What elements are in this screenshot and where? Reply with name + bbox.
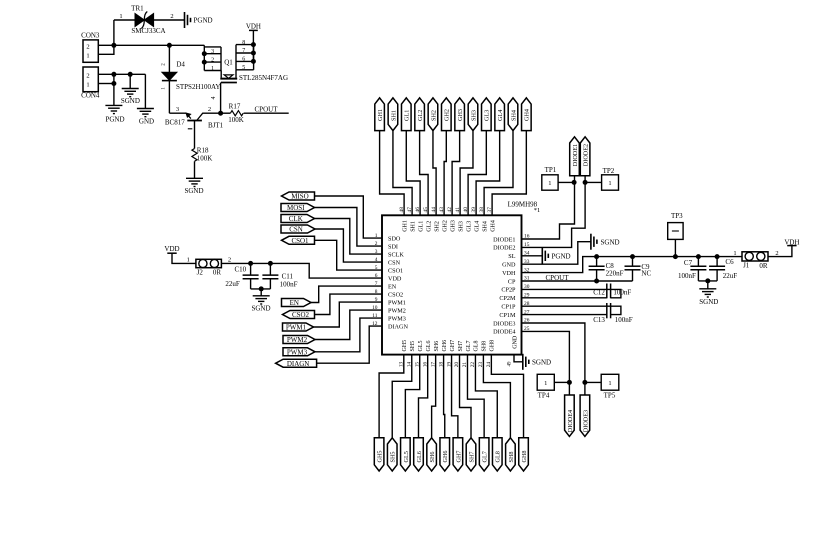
svg-text:GH7: GH7: [455, 450, 462, 462]
svg-text:GL1: GL1: [418, 221, 424, 232]
svg-text:GH2: GH2: [442, 220, 448, 232]
svg-text:GL5: GL5: [418, 341, 424, 352]
svg-text:1: 1: [548, 180, 551, 187]
wire TP4 to DIODE4 net: [554, 381, 569, 383]
svg-text:1: 1: [211, 66, 214, 72]
wire EN to pin7: [311, 286, 382, 302]
net flag PWM1: [283, 323, 314, 331]
wire IC GND pin to SGND: [514, 355, 522, 362]
capacitor C9 NC: [632, 257, 634, 267]
svg-text:CSO1: CSO1: [388, 267, 403, 274]
net flag SH1 (top): [388, 98, 398, 131]
svg-text:STPS2H100AY: STPS2H100AY: [176, 83, 220, 91]
wire Q1 source pin4: [220, 83, 222, 114]
svg-text:GH4: GH4: [490, 220, 496, 232]
svg-text:CSN: CSN: [289, 226, 303, 234]
wire GL1 to pin 46: [406, 131, 420, 216]
node DIODE1/TP1: [572, 180, 577, 185]
resistor R17 100K: [230, 111, 243, 116]
svg-text:22uF: 22uF: [723, 272, 738, 280]
svg-text:*1: *1: [534, 207, 541, 214]
net flag GL6 (bottom): [414, 438, 424, 471]
node C11 tap: [268, 261, 273, 266]
svg-text:CSO2: CSO2: [388, 291, 403, 298]
net flag SH8 (bottom): [506, 438, 516, 471]
svg-text:VDH: VDH: [246, 22, 261, 30]
connector CON3: [83, 40, 98, 62]
node Q1 pin2: [202, 60, 207, 65]
svg-text:100nF: 100nF: [613, 289, 631, 297]
svg-text:SCLK: SCLK: [388, 251, 404, 258]
svg-text:J2: J2: [197, 269, 204, 277]
wire MISO to pin1: [315, 196, 383, 238]
wire DIODE2 to pin15: [522, 176, 586, 248]
wire GH6 to pin 18: [444, 355, 445, 438]
node C7/C6 ground join: [705, 278, 710, 283]
svg-text:GH7: GH7: [450, 340, 456, 352]
svg-text:10: 10: [372, 305, 378, 311]
wire GL3 to pin 40: [468, 131, 486, 216]
svg-text:GND: GND: [502, 262, 516, 269]
svg-text:GL2: GL2: [417, 110, 424, 121]
wire SH3 to pin 41: [460, 131, 473, 216]
wire R18 to SGND: [194, 161, 196, 178]
svg-text:SH7: SH7: [468, 451, 475, 462]
svg-text:CP: CP: [508, 278, 516, 285]
node C7 tap: [696, 254, 701, 259]
svg-text:NC: NC: [641, 270, 651, 278]
svg-text:GND: GND: [512, 335, 518, 349]
svg-text:TP3: TP3: [671, 212, 683, 220]
net flag MISO: [282, 192, 315, 200]
wire GH3 to pin 42: [452, 131, 460, 216]
svg-text:EN: EN: [290, 299, 299, 307]
svg-text:DIODE4: DIODE4: [493, 329, 515, 336]
wire SH4 to pin 38: [484, 131, 513, 216]
svg-text:C7: C7: [684, 259, 693, 267]
svg-text:1: 1: [608, 380, 611, 387]
svg-text:PGND: PGND: [105, 115, 124, 123]
svg-text:4: 4: [375, 257, 378, 263]
svg-text:TP2: TP2: [603, 167, 615, 175]
wire CLK to pin3: [315, 219, 383, 255]
svg-text:1: 1: [544, 380, 547, 387]
svg-text:1: 1: [608, 180, 611, 187]
svg-text:DIODE2: DIODE2: [583, 144, 590, 166]
net flag GL4 (top): [495, 98, 505, 131]
net flag CLK: [281, 215, 315, 223]
capacitor C6 22uF: [716, 257, 718, 267]
net flag GH1 (top): [375, 98, 385, 131]
node DIODE4/TP4: [567, 380, 572, 385]
svg-text:6: 6: [375, 273, 378, 279]
wire GL7 to pin 21: [467, 355, 484, 438]
svg-text:CON3: CON3: [81, 32, 100, 40]
svg-text:SH7: SH7: [458, 341, 464, 352]
net flag GH8 (bottom): [519, 438, 529, 471]
wire SH8 to pin 23: [483, 355, 510, 438]
signal ground SGND (pin33): [590, 234, 592, 250]
svg-text:VDD: VDD: [388, 275, 402, 282]
svg-text:0R: 0R: [213, 269, 222, 277]
net flag DIODE2: [580, 137, 590, 176]
wire GH2 to pin 43: [444, 131, 446, 216]
svg-text:GL3: GL3: [484, 110, 491, 121]
net flag GL8 (bottom): [492, 438, 502, 471]
node C10 tap: [248, 261, 253, 266]
capacitor C7 100nF: [697, 257, 699, 267]
transistor Q1 MOSFET body: [220, 71, 222, 78]
svg-text:MISO: MISO: [291, 193, 309, 201]
svg-text:3: 3: [375, 249, 378, 255]
wire CSN to pin4: [315, 229, 382, 262]
svg-text:1: 1: [375, 233, 378, 239]
svg-text:2: 2: [775, 250, 778, 257]
svg-text:SGND: SGND: [251, 305, 270, 313]
svg-text:2: 2: [211, 58, 214, 64]
svg-text:SH6: SH6: [429, 451, 436, 462]
svg-text:SH1: SH1: [410, 221, 416, 232]
svg-text:GH6: GH6: [442, 450, 449, 462]
wire DIODE4 pin25: [522, 331, 570, 395]
svg-text:5: 5: [375, 265, 378, 271]
svg-text:12: 12: [372, 321, 378, 327]
net flag GL5 (bottom): [401, 438, 411, 471]
net flag DIAGN: [276, 359, 317, 367]
net flag DIODE3 (bottom): [580, 395, 590, 436]
svg-text:TR1: TR1: [131, 5, 144, 13]
svg-text:GL7: GL7: [466, 341, 472, 352]
svg-text:22uF: 22uF: [225, 280, 240, 288]
wire main rail to Q1: [114, 44, 204, 46]
node Q1 pin3: [202, 51, 207, 56]
svg-text:GH1: GH1: [377, 109, 384, 121]
net flag SH7 (bottom): [466, 438, 476, 471]
wire GH8 to pin 24: [491, 355, 523, 438]
net flag GH2 (top): [442, 98, 452, 131]
node source/R17/BJT junction: [218, 111, 223, 116]
wire SH7 to pin 20: [460, 355, 471, 438]
svg-text:2: 2: [375, 241, 378, 247]
svg-text:PWM3: PWM3: [287, 348, 308, 356]
wire TP2 to DIODE2 net: [585, 181, 602, 183]
node DIODE2/TP2: [583, 180, 588, 185]
svg-text:SGND: SGND: [121, 97, 140, 105]
svg-text:1: 1: [161, 87, 166, 90]
svg-text:GL1: GL1: [404, 110, 411, 121]
svg-text:SH4: SH4: [482, 221, 488, 232]
svg-text:SH2: SH2: [434, 221, 440, 232]
wire TP3 to rail: [674, 239, 676, 256]
svg-text:CPOUT: CPOUT: [255, 105, 279, 113]
signal ground SGND (IC bottom): [522, 354, 524, 370]
net flag CSN: [281, 225, 315, 233]
svg-text:49: 49: [508, 361, 513, 367]
net flag DIODE4 (bottom): [565, 395, 575, 436]
svg-text:SH3: SH3: [470, 110, 477, 121]
svg-text:GH5: GH5: [377, 450, 384, 462]
svg-text:GH5: GH5: [402, 340, 408, 352]
svg-text:DIODE3: DIODE3: [493, 320, 515, 327]
svg-text:GL6: GL6: [416, 451, 423, 462]
svg-text:11: 11: [372, 313, 377, 319]
svg-text:VDD: VDD: [164, 245, 179, 253]
svg-text:SDI: SDI: [388, 243, 398, 250]
svg-text:SGND: SGND: [532, 358, 551, 366]
connector CON4: [83, 67, 98, 92]
svg-text:SH5: SH5: [410, 341, 416, 352]
svg-text:TP1: TP1: [545, 166, 557, 174]
wire GL8 to pin 22: [475, 355, 497, 438]
svg-text:6: 6: [242, 57, 245, 63]
wire TP1 to DIODE1 net: [558, 181, 574, 183]
net flag GL3 (top): [482, 98, 492, 131]
svg-text:CP1P: CP1P: [501, 304, 516, 311]
wire GH7 to pin 19: [452, 355, 458, 438]
svg-text:SL: SL: [508, 253, 515, 260]
svg-text:1: 1: [187, 256, 190, 263]
node main supply junction: [111, 43, 116, 48]
svg-text:CSO2: CSO2: [292, 311, 310, 319]
resistor R18 100K: [192, 149, 197, 162]
power ground PGND (left): [105, 104, 122, 106]
net flag GH7 (bottom): [453, 438, 463, 471]
svg-text:EN: EN: [388, 283, 397, 290]
svg-text:GND: GND: [139, 117, 154, 125]
svg-text:DIAGN: DIAGN: [287, 360, 310, 368]
svg-text:DIODE4: DIODE4: [567, 410, 574, 432]
net flag EN: [282, 299, 312, 307]
wire GND pin33 to SGND: [522, 242, 591, 265]
svg-text:2: 2: [208, 106, 211, 113]
wire SH5 to pin 14: [392, 355, 412, 438]
svg-text:CPOUT: CPOUT: [546, 274, 570, 282]
svg-text:GH1: GH1: [402, 220, 408, 232]
svg-text:R17: R17: [229, 102, 241, 110]
net flag DIODE1: [570, 137, 580, 176]
wire TR1 pin1: [114, 19, 135, 21]
wire to PGND symbol: [113, 74, 115, 105]
wire GH1 to pin 48: [380, 131, 405, 216]
svg-text:DIODE1: DIODE1: [493, 236, 515, 243]
svg-text:PWM1: PWM1: [388, 299, 406, 306]
net flag GH6 (bottom): [440, 438, 450, 471]
svg-text:PGND: PGND: [552, 252, 571, 260]
svg-text:J1: J1: [743, 261, 750, 269]
op-amp U1 L99MH98 body: [382, 215, 522, 354]
svg-text:C13: C13: [593, 316, 605, 324]
node TP3/rail: [673, 254, 678, 259]
svg-text:2: 2: [170, 13, 173, 20]
node Q1 pin6: [251, 59, 256, 64]
svg-text:MOSI: MOSI: [287, 204, 305, 212]
svg-text:SH4: SH4: [510, 110, 517, 121]
wire CON3 pin2 stub: [98, 44, 114, 46]
svg-text:DIODE2: DIODE2: [493, 245, 515, 252]
wire to SGND symbol: [129, 74, 131, 88]
svg-text:SH2: SH2: [430, 110, 437, 121]
wire TP5 to DIODE3 net: [585, 381, 601, 383]
svg-text:C11: C11: [282, 273, 294, 281]
signal ground SGND (under R18): [186, 177, 203, 179]
net flag GL2 (top): [415, 98, 425, 131]
svg-text:SMCJ33CA: SMCJ33CA: [131, 27, 165, 35]
svg-text:GL4: GL4: [497, 110, 504, 121]
svg-text:GH3: GH3: [457, 109, 464, 121]
wire TR1 pin2 to PGND: [154, 19, 184, 21]
svg-text:SH1: SH1: [390, 110, 397, 121]
wire CON4 pin1 stub: [98, 83, 114, 85]
wire DIAGN to pin12: [317, 326, 382, 363]
wire to GND symbol: [144, 74, 146, 108]
wire CON3 pin1 stub: [98, 45, 114, 54]
svg-text:GL6: GL6: [426, 341, 432, 352]
node Q1 pin8: [251, 42, 256, 47]
signal ground SGND (under C6/C7): [699, 288, 716, 290]
capacitor C10 22uF: [250, 263, 252, 275]
svg-text:100nF: 100nF: [615, 316, 633, 324]
test point TP4: [537, 374, 554, 390]
svg-text:SH8: SH8: [482, 341, 488, 352]
net flag SH5 (bottom): [387, 438, 397, 471]
net flag SH6 (bottom): [427, 438, 437, 471]
svg-text:GH6: GH6: [442, 340, 448, 352]
signal ground SGND (under C10/C11): [253, 295, 270, 297]
svg-text:PGND: PGND: [194, 17, 213, 25]
wire PWM1 to pin9: [314, 302, 383, 327]
wire GL6 to pin 16: [418, 355, 427, 438]
net flag CSO2: [283, 311, 315, 319]
svg-text:SH8: SH8: [508, 451, 515, 462]
net flag GH3 (top): [455, 98, 465, 131]
wire CON4 pin2 to grounds: [98, 73, 145, 75]
net flag SH4 (top): [508, 98, 518, 131]
power ground PGND (SL): [541, 248, 543, 264]
node SGND branch: [128, 72, 133, 77]
node C9 tap: [630, 254, 635, 259]
net flag GH4 (top): [522, 98, 532, 131]
svg-text:GL2: GL2: [426, 221, 432, 232]
svg-text:CP1M: CP1M: [499, 312, 516, 319]
svg-text:CSN: CSN: [388, 259, 401, 266]
wire GL2 to pin 45: [420, 131, 428, 216]
wire rail after J1 to VDH: [768, 245, 792, 256]
wire GH4 to pin 37: [492, 131, 526, 216]
node DIODE3/TP5: [582, 380, 587, 385]
wire DIODE1 to pin16: [522, 176, 575, 239]
wire TR1 drop to node: [113, 20, 115, 45]
node D4 anode: [167, 43, 172, 48]
svg-text:DIODE3: DIODE3: [582, 410, 589, 432]
svg-text:2: 2: [86, 43, 89, 50]
svg-text:GH4: GH4: [524, 109, 531, 121]
capacitor C12 100nF: [522, 289, 621, 297]
svg-text:GH2: GH2: [444, 109, 451, 121]
signal ground SGND (left): [122, 88, 139, 90]
svg-text:2: 2: [228, 256, 231, 263]
svg-text:DIODE1: DIODE1: [572, 144, 579, 166]
svg-text:STL285N4F7AG: STL285N4F7AG: [239, 74, 288, 82]
svg-text:5: 5: [242, 65, 245, 71]
transistor Q1 STL285N4F7AG pin table left 3-2-1: [203, 45, 205, 70]
svg-text:GL7: GL7: [482, 451, 489, 462]
svg-text:GL8: GL8: [495, 451, 502, 462]
svg-text:GH8: GH8: [490, 340, 496, 352]
capacitor C13 100nF: [522, 306, 621, 314]
svg-text:8: 8: [242, 40, 245, 46]
svg-text:CLK: CLK: [289, 215, 303, 223]
net flag PWM3: [283, 348, 315, 356]
svg-text:GL8: GL8: [474, 341, 480, 352]
wire CP pin31 CPOUT net: [522, 280, 633, 282]
svg-text:220nF: 220nF: [606, 269, 624, 277]
svg-text:DIAGN: DIAGN: [388, 323, 408, 330]
svg-text:CP2M: CP2M: [499, 295, 516, 302]
svg-text:Q1: Q1: [224, 59, 233, 67]
svg-text:GL4: GL4: [474, 221, 480, 232]
wire VDD rail to IC pin6: [221, 263, 382, 278]
svg-text:BJT1: BJT1: [208, 122, 224, 130]
wire VDH to Q1 drain pins: [252, 30, 254, 62]
svg-text:3: 3: [211, 49, 214, 55]
ground GND: [137, 108, 154, 110]
svg-text:BC817: BC817: [165, 119, 185, 127]
svg-text:7: 7: [242, 48, 245, 54]
svg-text:9: 9: [375, 297, 378, 303]
wire caps to SGND: [251, 288, 271, 290]
net flag PWM2: [283, 336, 315, 344]
node C6 tap: [715, 254, 720, 259]
wire PWM2 to pin10: [315, 310, 382, 339]
svg-text:C6: C6: [725, 258, 734, 266]
svg-text:C10: C10: [234, 266, 246, 274]
diode D4 STPS2H100AY: [168, 45, 170, 72]
svg-text:SDO: SDO: [388, 235, 401, 242]
svg-text:TP4: TP4: [538, 391, 550, 399]
svg-text:0R: 0R: [759, 262, 768, 270]
svg-text:SH5: SH5: [390, 451, 397, 462]
capacitor C11 100nF: [269, 263, 271, 275]
svg-text:GH8: GH8: [521, 450, 528, 462]
svg-text:PWM2: PWM2: [388, 307, 406, 314]
svg-text:SGND: SGND: [699, 298, 718, 306]
svg-text:GL3: GL3: [466, 221, 472, 232]
net flag SH2 (top): [428, 98, 438, 131]
svg-text:100nF: 100nF: [678, 272, 696, 280]
wire GL4 to pin 39: [476, 131, 500, 216]
wire C7/C6 to SGND: [698, 280, 717, 282]
power ground PGND (top): [184, 12, 186, 28]
wire CSO2 to pin8: [315, 294, 383, 314]
svg-text:PWM2: PWM2: [287, 336, 308, 344]
test point TP5: [601, 374, 619, 390]
svg-text:1: 1: [733, 250, 736, 257]
svg-text:PWM1: PWM1: [286, 324, 307, 332]
svg-text:4: 4: [211, 97, 217, 100]
node cap ground join: [259, 286, 264, 291]
svg-text:100K: 100K: [197, 154, 213, 162]
wire MOSI to pin2: [315, 208, 383, 247]
svg-text:TP5: TP5: [604, 391, 616, 399]
node CON4 ground tie: [111, 72, 116, 77]
svg-text:1: 1: [119, 13, 122, 20]
net flag SH3 (top): [468, 98, 478, 131]
svg-text:1: 1: [86, 52, 89, 59]
wire VDH pin32 to rail: [522, 257, 743, 273]
svg-text:CP2P: CP2P: [501, 287, 516, 294]
transistor Q1 pin table right 8-7-6-5: [236, 44, 254, 46]
svg-text:D4: D4: [176, 61, 185, 69]
